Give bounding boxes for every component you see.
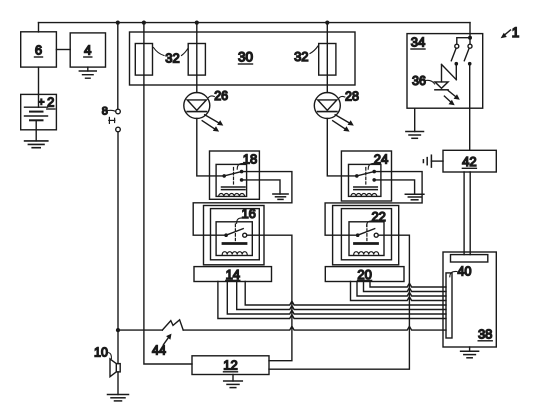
wire fuse1 rail: [144, 23, 192, 364]
relay 22 inner box: [349, 222, 384, 256]
wire bus to switch 8: [117, 23, 119, 110]
relay 16 coil: [222, 244, 247, 255]
leader for 22: [367, 221, 373, 226]
leader for 10: [108, 353, 112, 359]
svg-text:2: 2: [47, 95, 54, 110]
wire relay 22 output to box 12: [269, 235, 409, 369]
svg-text:14: 14: [226, 267, 240, 282]
wire box14 lead 3: [237, 282, 446, 310]
wire box14 lead 1: [218, 282, 446, 319]
wire speaker to ground: [117, 372, 119, 395]
switch 8 bottom contact: [116, 127, 121, 132]
wire switch 8 down to junction: [117, 132, 119, 330]
wire nest middle around relay 16: [211, 209, 260, 260]
wire nest outer around relay 16: [204, 206, 265, 265]
svg-text:38: 38: [478, 327, 492, 342]
node junction dot speaker tap: [116, 328, 120, 332]
box 20: [325, 267, 404, 282]
LED 26 emission arrows: [202, 115, 223, 132]
svg-text:20: 20: [357, 267, 371, 282]
box 6: [21, 32, 57, 67]
svg-text:32: 32: [165, 51, 179, 66]
leader for 36: [426, 80, 435, 84]
svg-text:28: 28: [345, 90, 359, 104]
svg-text:32: 32: [294, 49, 308, 64]
leader 32 to fuse3: [310, 46, 318, 54]
box 38: [443, 252, 496, 347]
leader for 16: [237, 218, 243, 223]
relay 18 inner box: [216, 164, 247, 196]
LED 28 emission arrows: [333, 115, 354, 132]
box 30 fuse block: [130, 32, 356, 85]
wire bus into box 34: [469, 23, 471, 45]
svg-text:1: 1: [512, 25, 520, 40]
svg-text:10: 10: [94, 346, 108, 360]
relay 22 switch: [356, 224, 378, 241]
relay 24 outer box: [341, 151, 391, 201]
wire nest outer around relay 22: [333, 206, 399, 265]
relay 16 inner box: [216, 222, 252, 256]
ground right of relay 24: [405, 194, 424, 200]
LED 36 emission arrows: [444, 91, 459, 106]
battery 2 box: [21, 94, 57, 129]
fuse rectangle left: [135, 44, 152, 76]
LED 36: [435, 82, 448, 90]
svg-text:40: 40: [458, 265, 472, 279]
relay 24 switch: [355, 168, 376, 185]
switch 8 top contact: [116, 109, 121, 114]
chassis ground left of box 42: [423, 155, 443, 167]
label 1 figure arrow: [501, 25, 520, 40]
leader for 24: [368, 163, 375, 169]
ground under speaker: [108, 395, 129, 401]
svg-text:34: 34: [411, 35, 425, 50]
wire relay 24 output to relay 22 input: [325, 172, 422, 236]
ground right of relay 18: [273, 194, 288, 199]
relay 16 switch: [224, 224, 246, 241]
battery cell plates: [25, 94, 48, 129]
connector at top of box 38: [451, 255, 488, 262]
wire relay 18 output to relay 16 input: [193, 172, 292, 236]
box 34: [407, 34, 483, 109]
svg-text:44: 44: [152, 344, 166, 358]
relay 18 outer box: [210, 151, 260, 199]
wire box6 to battery 2: [38, 67, 40, 94]
wire box14 lead 2: [227, 282, 446, 315]
label 44 arrow: [152, 334, 171, 358]
speaker 10: [110, 359, 120, 377]
box 12: [192, 356, 269, 375]
switch 8 actuator mark: [109, 117, 115, 123]
LED 26: [184, 93, 210, 119]
wire box 34 right switch down to box 42: [469, 66, 471, 151]
svg-text:12: 12: [223, 358, 237, 373]
node junction dot in box 34: [468, 36, 472, 40]
svg-text:36: 36: [412, 74, 426, 88]
wire box20 lead 2: [357, 282, 446, 297]
wire double bus box 42 to box 38: [464, 172, 470, 255]
wire box14 lead 4: [245, 282, 446, 306]
wire branch to left switch: [457, 38, 470, 45]
squiggle break 44: [162, 320, 183, 330]
relay 18 coil: [219, 187, 245, 196]
node junction dot fuse2 tap: [195, 21, 199, 25]
wire box20 lead 4: [370, 282, 446, 288]
fuse rectangle middle: [188, 44, 205, 76]
svg-text:42: 42: [462, 154, 476, 169]
leader for 26: [208, 96, 214, 98]
wire box20 lead 1: [351, 282, 447, 301]
connector 40 vertical: [446, 273, 452, 338]
leader 32 to fuse2: [182, 49, 188, 56]
wire zigzag to LED 36: [442, 64, 457, 82]
wire interrupted line 44 from speaker junction to connector 40: [118, 329, 162, 331]
ground under box 34: [406, 108, 424, 138]
ground under battery 2: [25, 130, 48, 148]
wire relay 16 output to box 12: [247, 235, 292, 361]
wire relay 18 NC contact to ground: [242, 180, 280, 194]
box 42: [443, 150, 496, 172]
relay 18 switch: [222, 168, 243, 185]
svg-text:26: 26: [214, 89, 228, 103]
wire junction to speaker: [117, 330, 119, 364]
wire squiggle to connector 40: [183, 326, 446, 330]
box 4: [70, 33, 105, 67]
leader for 40: [450, 271, 457, 276]
switch contacts in box 34: [451, 44, 472, 65]
svg-text:8: 8: [102, 106, 108, 118]
LED 28: [314, 93, 340, 119]
wire box6 to bus: [38, 23, 40, 32]
wire top supply bus: [39, 22, 471, 24]
wire box6 to box4: [56, 49, 70, 51]
leader for 18: [237, 163, 244, 169]
relay 24 coil: [351, 187, 377, 196]
wire fuse2 rail upper: [196, 23, 198, 93]
leader 32 to fuse1: [154, 48, 165, 56]
svg-text:6: 6: [35, 43, 42, 58]
leader for 8: [108, 110, 116, 111]
box 14: [194, 267, 272, 282]
relay 24 inner box: [349, 164, 381, 196]
svg-text:30: 30: [238, 50, 253, 65]
ground under box 38: [461, 347, 479, 358]
node junction dot fuse1 tap: [142, 21, 146, 25]
wire LED26 to relay 18 input: [197, 119, 223, 176]
leader for 28: [339, 96, 345, 98]
ground under box 12: [224, 375, 243, 388]
node junction dot fuse3 tap: [325, 21, 329, 25]
node junction dot switch8 tap: [116, 21, 120, 25]
ground under box 4: [79, 67, 96, 78]
svg-text:16: 16: [241, 206, 255, 221]
wire box20 lead 3: [364, 282, 447, 292]
relay 22 coil: [354, 244, 379, 255]
wire LED28 to relay 24 input: [327, 119, 355, 176]
wire relay 24 NC contact to ground: [374, 180, 414, 194]
svg-text:4: 4: [84, 43, 91, 58]
wire fuse3 rail upper: [326, 23, 328, 93]
fuse rectangle right: [319, 44, 336, 76]
wire nest middle around relay 22: [341, 209, 391, 260]
